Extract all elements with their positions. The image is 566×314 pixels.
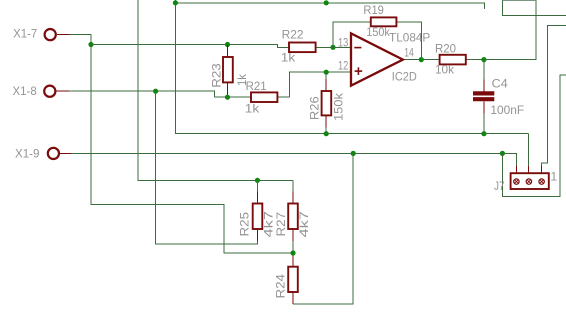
resistor R24 (vertical) xyxy=(288,267,298,292)
node junction top-left xyxy=(173,0,178,5)
node junction R25 top xyxy=(255,178,260,183)
resistor R19 xyxy=(371,17,397,26)
node junction R24 loop xyxy=(351,151,356,156)
node junction output feedback xyxy=(419,57,424,62)
wire C4 top stub xyxy=(483,60,485,80)
wire X1-9 net horizontal xyxy=(515,166,517,173)
wire X1-9 branch around J7 xyxy=(502,75,566,196)
svg-text:14: 14 xyxy=(404,46,414,60)
wire cropped net top right xyxy=(503,0,566,15)
node junction top-mid xyxy=(324,0,329,5)
svg-text:150k: 150k xyxy=(366,25,390,39)
wire X1-9 branch down to R24 bottom xyxy=(292,292,294,304)
node junction C4 bottom xyxy=(481,131,486,136)
resistor R22 xyxy=(289,43,316,53)
node junction pin13 xyxy=(330,45,335,50)
wire R25 top stub xyxy=(256,180,258,191)
svg-text:R19: R19 xyxy=(363,3,384,17)
svg-text:IC2D: IC2D xyxy=(392,70,417,84)
resistor R20 xyxy=(440,55,466,65)
svg-text:1k: 1k xyxy=(281,51,297,65)
wire R27 top stub xyxy=(292,180,294,191)
connector J7 xyxy=(511,173,549,189)
wire feedback vertical line B xyxy=(138,0,293,180)
wire rail down to J7 pin2 xyxy=(528,134,530,166)
resistor R23 (vertical) xyxy=(223,57,233,82)
pin crosses xyxy=(514,180,543,184)
connector pin X1-7 xyxy=(45,29,69,40)
wire X1-8 net to jog xyxy=(69,91,228,97)
node junction R27 bottom / R24 top xyxy=(290,250,295,255)
node junction R23 bottom xyxy=(225,95,230,100)
wire C4 bottom stub xyxy=(483,101,485,113)
wire top net horizontal xyxy=(175,0,484,9)
svg-text:TL084P: TL084P xyxy=(389,30,430,44)
resistor R26 150k (vertical) xyxy=(322,91,332,115)
svg-text:R26: R26 xyxy=(308,96,322,120)
connector pin X1-8 xyxy=(44,86,69,97)
svg-text:100nF: 100nF xyxy=(490,103,524,117)
pin circles xyxy=(514,179,519,184)
resistor R25 4k7 (vertical) xyxy=(253,204,263,230)
wire pin13 into op-amp xyxy=(316,46,351,48)
svg-text:150k: 150k xyxy=(332,92,346,121)
svg-text:4k7: 4k7 xyxy=(297,211,311,238)
op-amp plus sign xyxy=(355,70,363,72)
wire top net down to lower rail xyxy=(175,3,528,134)
node junction R23 top xyxy=(225,42,230,47)
svg-text:J7: J7 xyxy=(494,179,505,193)
wire R21 right up to pin12 xyxy=(277,72,350,97)
node junction C4 top xyxy=(481,57,486,62)
node junction X1-7 net xyxy=(88,42,93,47)
svg-text:1k: 1k xyxy=(245,102,261,116)
svg-text:R23: R23 xyxy=(210,63,224,88)
svg-text:R25: R25 xyxy=(238,212,252,237)
wire R27 bottom to R24 xyxy=(292,229,294,241)
svg-text:R24: R24 xyxy=(273,274,287,299)
svg-text:R27: R27 xyxy=(274,212,288,237)
svg-text:X1-8: X1-8 xyxy=(13,84,38,98)
wire J7 pin3 net xyxy=(541,166,543,173)
wire X1-8 branch down to R25 bottom xyxy=(256,229,258,241)
node junction J7 loop xyxy=(500,151,505,156)
svg-text:10k: 10k xyxy=(435,62,455,76)
wire op-amp output row xyxy=(403,59,440,61)
wire R20 right net xyxy=(466,0,536,60)
node junction R26 bottom xyxy=(324,131,329,136)
op-amp minus sign xyxy=(354,47,361,49)
connector pin X1-9 xyxy=(48,148,71,159)
wire R19 left to pin13 xyxy=(333,22,371,47)
wire junction to R21 xyxy=(228,96,252,98)
node junction X1-8 branch xyxy=(153,89,158,94)
wire X1-7 net horizontal to R22 xyxy=(91,45,289,48)
node junction pin12 / R26 top xyxy=(324,70,329,75)
svg-text:1: 1 xyxy=(551,170,558,184)
svg-text:R22: R22 xyxy=(282,28,304,42)
svg-text:C4: C4 xyxy=(492,77,508,91)
svg-text:12: 12 xyxy=(338,59,349,73)
svg-text:1k: 1k xyxy=(235,73,249,86)
wire feedback loop R19 xyxy=(396,22,421,60)
wire cropped stub at top edge xyxy=(503,0,536,2)
wire X1-7 to corner xyxy=(69,35,91,45)
wire X1-7 branch down left xyxy=(91,45,293,254)
svg-text:R20: R20 xyxy=(435,41,456,55)
svg-text:13: 13 xyxy=(338,35,349,49)
svg-text:X1-7: X1-7 xyxy=(13,26,38,40)
op-amp U IC2D triangle xyxy=(351,33,403,85)
svg-text:X1-9: X1-9 xyxy=(15,146,40,160)
resistor R21 xyxy=(251,92,277,102)
capacitor C4 xyxy=(473,93,494,99)
resistor R27 4k7 (vertical) xyxy=(288,204,298,230)
